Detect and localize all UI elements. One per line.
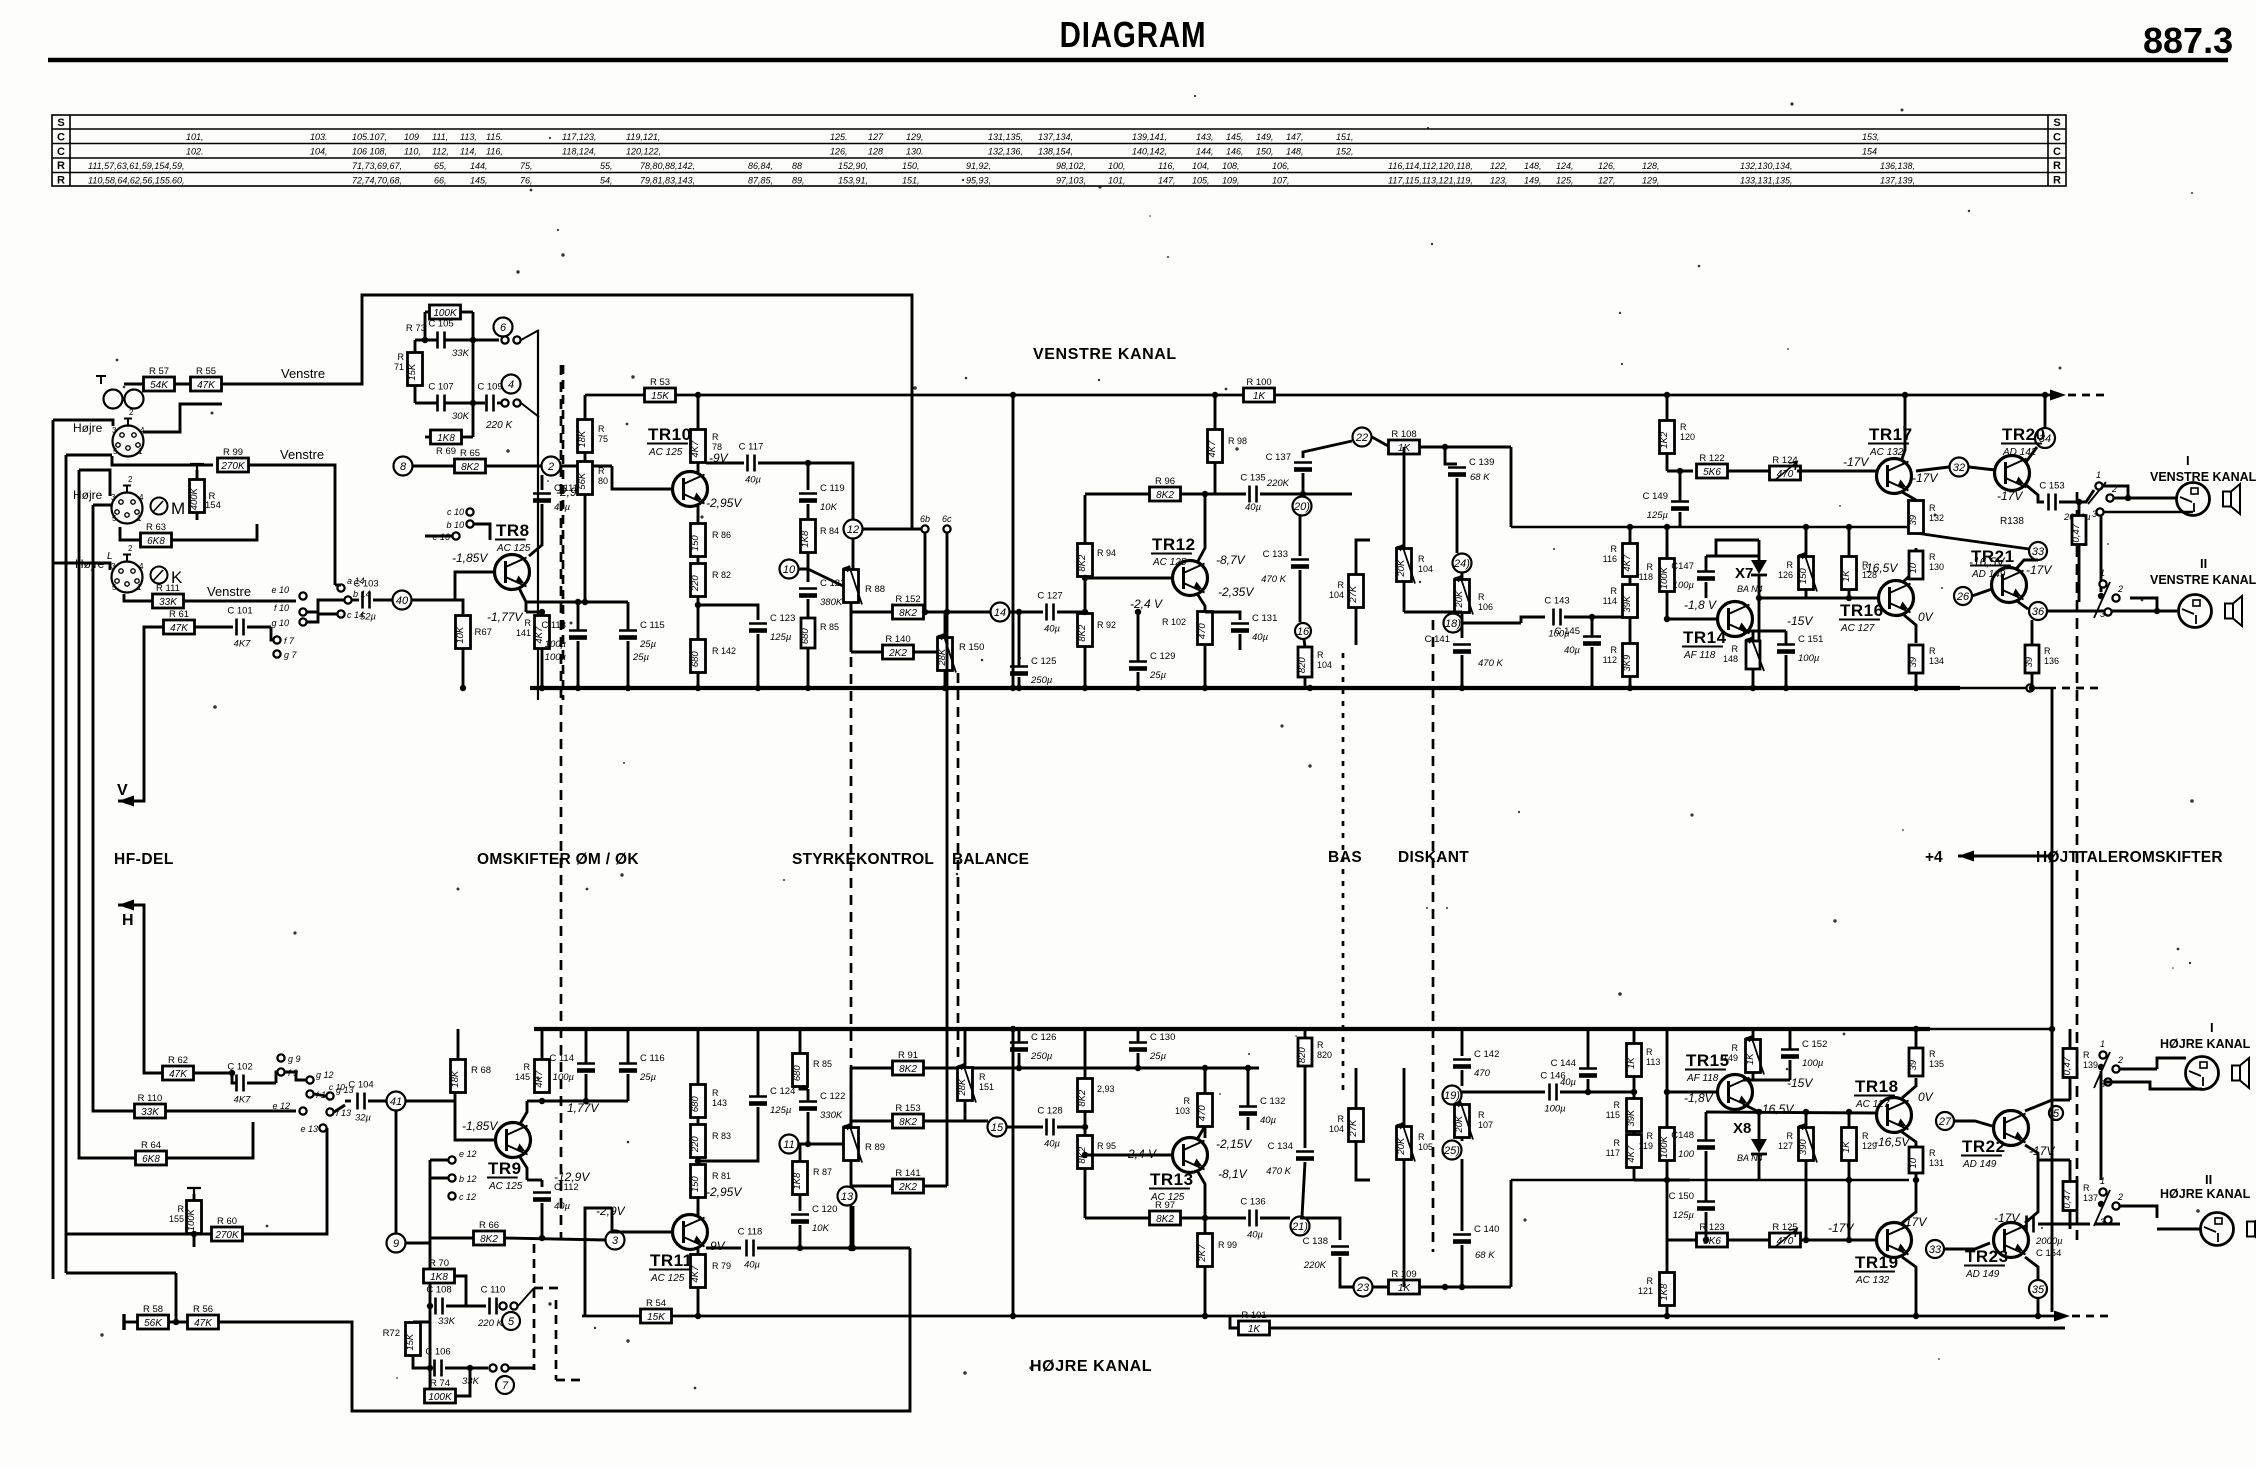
svg-text:106: 106: [1478, 602, 1493, 612]
speaker icon: [2225, 596, 2242, 626]
svg-text:HØJRE KANAL: HØJRE KANAL: [1030, 1358, 1152, 1375]
svg-text:40µ: 40µ: [1044, 1139, 1061, 1150]
node 21: [1291, 1217, 1310, 1236]
svg-text:f 10: f 10: [274, 603, 289, 613]
svg-text:6K8: 6K8: [147, 536, 165, 547]
wire R104 to R108 line: [1403, 447, 1406, 548]
speaker switch II bottom contacts: [2099, 1188, 2106, 1195]
resistor R93: [1077, 1079, 1093, 1112]
wire to TR13 base: [1085, 577, 1172, 580]
capacitor C117: [739, 442, 764, 486]
svg-text:R: R: [524, 1062, 531, 1072]
speaker icon: [2232, 1058, 2249, 1088]
dashed omskifter link: [560, 365, 563, 1240]
wire -16,5V line: [1759, 597, 1877, 600]
wire C147 bottom: [1705, 582, 1708, 598]
capacitor C107: [428, 382, 453, 412]
svg-text:1: 1: [2100, 568, 2105, 578]
svg-text:-1,8 V: -1,8 V: [1684, 598, 1717, 612]
svg-text:116,: 116,: [486, 147, 503, 157]
svg-text:g 7: g 7: [284, 650, 298, 660]
wire node2 down: [541, 475, 544, 490]
wire big bottom loop: [218, 1248, 910, 1411]
svg-text:1K8: 1K8: [1659, 1283, 1670, 1301]
wire to TR13 base: [1085, 1154, 1172, 1157]
wire R126 top: [1805, 527, 1808, 556]
wire R70 right: [455, 1276, 466, 1306]
svg-text:-17V: -17V: [1843, 455, 1869, 469]
transistor TR22: [1994, 1111, 2029, 1146]
diode: [1751, 1139, 1767, 1154]
wire R141 up: [924, 1185, 947, 1188]
svg-text:680: 680: [690, 651, 701, 668]
wire bus drop R75: [584, 395, 587, 419]
svg-text:R: R: [178, 1204, 185, 1214]
wire R93 to line: [1084, 1112, 1087, 1127]
svg-text:41: 41: [390, 1096, 402, 1108]
wire TR16 emitter down: [1904, 615, 1916, 643]
svg-text:2,93: 2,93: [1097, 1084, 1115, 1094]
svg-text:R 99: R 99: [223, 447, 243, 458]
svg-text:1K: 1K: [1626, 1057, 1637, 1069]
wire pot col to R141: [851, 1185, 892, 1188]
wire H feed: [118, 905, 162, 1073]
svg-text:47K: 47K: [170, 623, 189, 634]
wire C124 to emitter col: [698, 1107, 758, 1161]
svg-text:C 122: C 122: [820, 1091, 845, 1102]
svg-text:113: 113: [1646, 1057, 1660, 1067]
svg-text:-2,95V: -2,95V: [706, 496, 742, 510]
svg-text:3: 3: [111, 562, 116, 571]
svg-text:470: 470: [1197, 1105, 1208, 1122]
svg-text:TR16: TR16: [1840, 601, 1884, 620]
resistor R103: [1197, 1094, 1213, 1127]
svg-text:R 141: R 141: [895, 1168, 920, 1179]
wire R73 right: [460, 311, 473, 314]
resistor R99: [218, 447, 249, 472]
node 20: [1293, 497, 1312, 516]
svg-text:C 152: C 152: [1802, 1039, 1827, 1050]
svg-text:X8: X8: [1733, 1120, 1751, 1137]
svg-text:106,: 106,: [1272, 161, 1290, 171]
svg-text:C 153: C 153: [2039, 481, 2064, 492]
svg-text:134: 134: [1929, 656, 1944, 666]
svg-text:47K: 47K: [197, 380, 216, 391]
svg-text:1: 1: [137, 583, 142, 592]
svg-text:C 126: C 126: [1031, 1032, 1056, 1043]
svg-text:59,: 59,: [172, 161, 185, 171]
svg-text:R: R: [712, 1088, 719, 1098]
svg-text:AC 125: AC 125: [496, 543, 531, 554]
wire TR21 collector: [2017, 560, 2038, 568]
wire g12-g13 arm: [314, 1094, 326, 1096]
node 34: [2035, 428, 2055, 448]
svg-text:2: 2: [2117, 1192, 2123, 1202]
svg-text:27K: 27K: [1348, 585, 1359, 604]
wire C102 left: [232, 1073, 236, 1083]
wire switch to speaker Ib: [2120, 1068, 2157, 1071]
svg-text:R: R: [1862, 560, 1869, 570]
svg-text:153,91,: 153,91,: [838, 176, 868, 186]
node 33: [2029, 542, 2047, 560]
wire drop to feed line: [1510, 447, 1513, 527]
wire TR12 emitter down: [1198, 595, 1205, 612]
svg-text:56K: 56K: [144, 1318, 163, 1329]
svg-text:1: 1: [2096, 470, 2101, 480]
wire emitter rail4: [1743, 1079, 1790, 1082]
capacitor C124: [749, 1086, 795, 1116]
svg-text:C 101: C 101: [227, 606, 252, 617]
wire left rail 1: [52, 420, 55, 1279]
resistor R75: [577, 420, 593, 453]
svg-text:149: 149: [1723, 1053, 1738, 1063]
svg-text:98,102,: 98,102,: [1056, 161, 1086, 171]
input terminal bar: [122, 1314, 125, 1330]
capacitor C 130: [1129, 1032, 1175, 1062]
wire to f7: [271, 627, 273, 640]
svg-text:C 104: C 104: [348, 1080, 373, 1091]
svg-text:1,77V: 1,77V: [567, 1101, 599, 1115]
wire base to R67: [455, 600, 463, 614]
svg-text:3: 3: [2092, 509, 2097, 519]
svg-text:TR10: TR10: [648, 425, 692, 444]
terminal f9: [277, 1068, 284, 1075]
svg-text:R 53: R 53: [650, 377, 670, 388]
capacitor C109: [477, 382, 502, 412]
node 18: [1444, 614, 1463, 633]
potentiometer R89: [843, 1124, 862, 1163]
wire C141 to bus: [1461, 655, 1464, 688]
transistor TR8 label: [495, 521, 531, 554]
capacitor C 150: [1669, 1191, 1715, 1221]
wire node22 stub: [1372, 437, 1390, 447]
svg-text:R 56: R 56: [193, 1304, 213, 1315]
resistor R138: [2071, 516, 2086, 545]
svg-text:R138: R138: [2000, 516, 2024, 527]
svg-text:101,: 101,: [1108, 176, 1126, 186]
resistor R119: [1659, 1128, 1675, 1161]
resistor R74: [425, 1378, 456, 1403]
resistor R140: [883, 634, 914, 659]
wire bus to R143: [697, 1029, 700, 1085]
resistor R58: [138, 1304, 169, 1329]
DIN connector P2: [111, 475, 144, 524]
svg-text:C 115: C 115: [640, 620, 665, 631]
wire venstre2 to switch: [248, 465, 335, 585]
resistor R73: [430, 305, 461, 319]
wire R57-R55: [174, 383, 191, 386]
wire switch to speaker IIb: [2120, 1206, 2157, 1218]
svg-text:11: 11: [783, 1139, 794, 1151]
svg-text:5K6: 5K6: [1703, 467, 1721, 478]
wire bus drop R120: [1666, 395, 1669, 421]
svg-text:887.3: 887.3: [2143, 20, 2233, 61]
resistor R115: [1626, 1099, 1642, 1132]
resistor R71: [407, 353, 423, 386]
svg-text:150: 150: [1798, 568, 1809, 585]
svg-text:C 151: C 151: [1798, 634, 1823, 645]
wire R149 to TR15: [1743, 1073, 1753, 1080]
svg-text:107,: 107,: [1272, 176, 1290, 186]
wire R104 down: [1403, 582, 1406, 612]
wire R61 to C101: [194, 626, 233, 629]
capacitor C120: [791, 1204, 837, 1234]
wire contact1 link: [2103, 486, 2128, 498]
resistor R55: [191, 366, 222, 391]
wire C101 right: [247, 626, 271, 629]
svg-text:-16,5V: -16,5V: [1969, 555, 2005, 569]
wire node25 to C140: [1461, 1159, 1464, 1231]
wire TR11 out to C118: [706, 1247, 741, 1250]
svg-text:4K7: 4K7: [234, 639, 252, 650]
svg-text:R: R: [1478, 592, 1485, 602]
svg-text:220 K: 220 K: [477, 1318, 503, 1329]
wire bus to R85: [799, 1029, 802, 1054]
wire C149 to feed line: [1679, 512, 1682, 527]
svg-text:132,136,: 132,136,: [988, 147, 1023, 157]
svg-text:100µ: 100µ: [1802, 1058, 1824, 1069]
svg-text:40µ: 40µ: [744, 1260, 761, 1271]
svg-text:56K: 56K: [577, 472, 588, 490]
node 41: [387, 1092, 406, 1111]
svg-text:270K: 270K: [214, 1230, 240, 1241]
dashed diskant divider: [1432, 620, 1435, 1252]
wire R87 top: [799, 1144, 802, 1161]
svg-text:144,: 144,: [1196, 147, 1214, 157]
svg-text:75: 75: [598, 434, 608, 444]
wire +4 arrow line: [1958, 855, 2052, 858]
transistor TR9 label: [487, 1159, 523, 1192]
wire TR21 emitter: [2017, 601, 2028, 609]
wire R119 down: [1666, 1161, 1669, 1180]
wire to R91: [851, 1067, 892, 1070]
svg-text:AF 118: AF 118: [1686, 1073, 1719, 1084]
resistor R134: [1908, 645, 1923, 673]
resistor R80: [577, 462, 593, 495]
wire contact down to switch IIb: [2100, 1071, 2103, 1180]
svg-text:TR12: TR12: [1152, 535, 1196, 554]
resistor R56: [188, 1304, 219, 1329]
wire drop to R58 line: [175, 1273, 178, 1322]
svg-text:-17V: -17V: [1997, 489, 2023, 503]
wire C127 right: [1057, 611, 1085, 614]
resistor R155: [186, 1201, 202, 1234]
svg-text:20K: 20K: [1454, 1115, 1465, 1134]
resistor R54: [641, 1298, 672, 1323]
transistor TR17 label: [1868, 425, 1913, 458]
svg-text:C 110: C 110: [481, 1285, 506, 1296]
svg-text:C 116: C 116: [640, 1053, 665, 1064]
svg-text:2: 2: [547, 461, 554, 473]
transistor TR13: [1173, 1138, 1208, 1173]
terminal f7: [273, 636, 280, 643]
svg-text:129: 129: [1862, 1141, 1877, 1151]
wire TR23 emitter down: [2025, 1257, 2038, 1280]
svg-text:C 127: C 127: [1037, 591, 1062, 602]
dashed switch link top: [562, 365, 565, 700]
svg-text:e 13: e 13: [300, 1124, 318, 1134]
transistor TR18 label: [1854, 1077, 1899, 1110]
svg-text:10: 10: [783, 564, 796, 576]
svg-text:35: 35: [2032, 1284, 2045, 1296]
capacitor C 126: [1010, 1032, 1056, 1062]
svg-text:4K7: 4K7: [690, 1265, 701, 1283]
capacitor C 152: [1781, 1039, 1827, 1069]
svg-text:e 12: e 12: [459, 1149, 477, 1159]
svg-text:10K: 10K: [455, 626, 466, 644]
svg-text:40µ: 40µ: [1564, 645, 1581, 656]
svg-text:1K8: 1K8: [792, 1172, 803, 1190]
resistor R92: [1077, 614, 1093, 647]
resistor R122: [1697, 453, 1728, 478]
wire left rail 4: [92, 505, 95, 963]
svg-text:Højre: Højre: [73, 488, 103, 502]
wire node13 down: [850, 1205, 853, 1248]
wire C133 down: [1299, 570, 1302, 622]
wire R84 to node10: [798, 553, 808, 569]
wire C114 top: [585, 1029, 588, 1063]
wire C138 to node23: [1340, 1257, 1354, 1287]
svg-text:R 69: R 69: [436, 446, 456, 457]
svg-text:680: 680: [690, 1096, 701, 1113]
capacitor C 113: [541, 620, 587, 650]
wire to R95: [1084, 1127, 1087, 1136]
wire bus to R93: [1084, 1029, 1087, 1079]
wire to C139: [1445, 447, 1457, 464]
wire node27 to TR22: [1954, 1121, 1992, 1126]
svg-text:0,47: 0,47: [2071, 523, 2082, 542]
node 35: [2029, 1280, 2047, 1298]
svg-text:1K8: 1K8: [437, 433, 455, 444]
wire R86-R82: [697, 557, 700, 564]
transistor TR20 label: [2001, 425, 2046, 458]
svg-text:R: R: [1317, 1040, 1324, 1050]
transistor TR9: [496, 1123, 531, 1158]
transistor TR20: [1995, 456, 2030, 491]
svg-text:C 120: C 120: [812, 1204, 837, 1215]
transistor TR23: [1994, 1223, 2029, 1258]
svg-text:C: C: [57, 131, 65, 143]
capacitor C146: [1540, 1071, 1566, 1115]
capacitor C111: [533, 483, 578, 513]
svg-text:116,114,112,120,118,: 116,114,112,120,118,: [1388, 161, 1473, 171]
svg-text:26: 26: [1956, 591, 1970, 603]
transistor TR18: [1877, 1098, 1912, 1133]
resistor R131: [1908, 1147, 1923, 1173]
svg-text:47K: 47K: [169, 1069, 188, 1080]
svg-text:39: 39: [1908, 1059, 1919, 1070]
svg-text:R: R: [1929, 1148, 1936, 1158]
wire R63 left: [120, 527, 141, 540]
wire to C138: [1300, 1218, 1340, 1240]
svg-text:C: C: [2053, 131, 2061, 143]
switch arm node6: [521, 330, 539, 340]
svg-text:10: 10: [1908, 562, 1919, 573]
wire R91 right long: [924, 1067, 1259, 1070]
capacitor C153: [2039, 481, 2064, 511]
svg-text:TR11: TR11: [650, 1251, 693, 1270]
wire C122 top: [807, 1089, 810, 1101]
svg-text:g 12: g 12: [316, 1070, 334, 1080]
svg-text:250µ: 250µ: [1030, 1051, 1053, 1062]
resistor R142: [690, 640, 706, 673]
wire node24-pot: [1461, 573, 1464, 580]
svg-text:71,73,69,67,: 71,73,69,67,: [352, 161, 402, 171]
svg-text:130: 130: [1929, 562, 1944, 572]
dashed bas divider: [1342, 653, 1345, 1090]
svg-text:C 103: C 103: [353, 579, 378, 590]
wire din1 pin to venstre2: [112, 456, 213, 465]
wire C148 bottom: [1705, 1151, 1708, 1180]
svg-text:270K: 270K: [220, 461, 246, 472]
svg-text:R 61: R 61: [169, 609, 189, 620]
svg-text:39: 39: [2024, 656, 2035, 667]
svg-text:40µ: 40µ: [554, 1201, 571, 1212]
svg-text:R 79: R 79: [712, 1261, 731, 1271]
wire C117 to node12: [758, 463, 853, 520]
wire C106 right: [445, 1367, 488, 1370]
svg-text:6c: 6c: [942, 514, 952, 524]
wire rail1 to din1: [53, 420, 113, 426]
wire TR10 coll to C117: [706, 462, 744, 465]
wire R65 to node2: [486, 465, 541, 468]
wire R136 to bus: [2031, 673, 2034, 688]
DIN connector P1: [112, 408, 145, 457]
svg-text:119: 119: [1639, 1141, 1653, 1151]
wire R120 to R122 line: [1666, 454, 1669, 471]
svg-text:R: R: [1611, 544, 1618, 554]
svg-text:4K7: 4K7: [234, 1095, 252, 1106]
wire node40 to TR8 base: [411, 572, 494, 600]
wire TR15 emitter to X8: [1743, 1104, 1759, 1112]
svg-text:C 105: C 105: [428, 319, 453, 330]
resistor R154: [189, 480, 216, 513]
wire C144 bottom: [1587, 1079, 1590, 1092]
node 25: [1443, 1141, 1462, 1160]
wire bus to 820: [1304, 1029, 1307, 1038]
resistor R109: [1389, 1269, 1420, 1294]
svg-text:25): 25): [1443, 1145, 1460, 1157]
svg-text:151,: 151,: [902, 176, 920, 186]
svg-text:152,: 152,: [1336, 147, 1354, 157]
resistor R70: [424, 1258, 455, 1283]
svg-text:R 140: R 140: [885, 634, 910, 645]
resistor R68: [450, 1060, 466, 1093]
svg-text:C 128: C 128: [1037, 1106, 1062, 1117]
svg-text:3: 3: [2100, 609, 2105, 619]
wire R122 line to C149: [1679, 471, 1682, 501]
svg-text:R: R: [2044, 646, 2051, 656]
svg-text:II: II: [2205, 1172, 2212, 1187]
wire C144 top: [1587, 1029, 1590, 1068]
wire TR17 emitter: [1902, 492, 1916, 500]
wire node2 to TR10 base col: [560, 465, 612, 468]
wire to e12b: [430, 1159, 448, 1162]
mini jack K: [151, 567, 184, 588]
svg-text:VENSTRE KANAL: VENSTRE KANAL: [1033, 346, 1177, 363]
svg-text:120: 120: [1680, 432, 1695, 442]
wire pot R89 down: [850, 1161, 853, 1187]
wire node26 to TR21 base: [1972, 589, 1992, 596]
svg-text:112,: 112,: [432, 147, 449, 157]
wire TR10 base left: [612, 466, 672, 489]
wire R127 top: [1805, 1112, 1808, 1127]
resistor R83: [690, 1125, 706, 1158]
svg-text:R 58: R 58: [143, 1304, 163, 1315]
svg-text:39K: 39K: [1622, 595, 1633, 613]
wire X7 down: [1758, 575, 1761, 640]
svg-text:125µ: 125µ: [1647, 510, 1669, 521]
